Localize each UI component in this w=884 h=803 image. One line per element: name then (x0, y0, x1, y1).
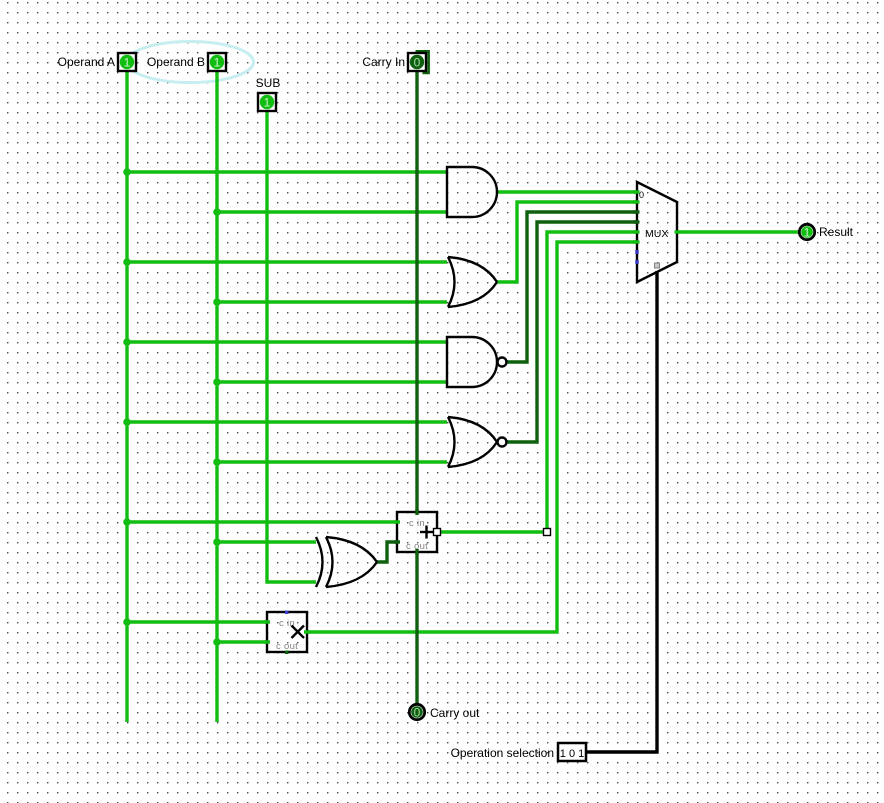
svg-text:Operand A: Operand A (58, 55, 115, 69)
svg-text:c in: c in (279, 618, 295, 629)
svg-text:MUX: MUX (645, 228, 668, 240)
svg-text:1: 1 (124, 56, 131, 70)
svg-text:c in: c in (409, 518, 425, 529)
svg-text:1 0 1: 1 0 1 (560, 748, 584, 760)
svg-text:SUB: SUB (256, 76, 281, 90)
svg-text:Result: Result (819, 225, 854, 239)
svg-text:1: 1 (264, 96, 271, 110)
svg-text:1: 1 (804, 226, 811, 240)
svg-text:c out: c out (276, 641, 298, 652)
svg-text:1: 1 (214, 56, 221, 70)
svg-text:Operand B: Operand B (147, 55, 205, 69)
svg-text:Carry out: Carry out (430, 706, 480, 720)
svg-text:Carry In: Carry In (362, 55, 405, 69)
svg-text:0: 0 (414, 56, 421, 70)
svg-text:0: 0 (414, 706, 421, 720)
svg-text:Operation selection: Operation selection (451, 746, 554, 760)
svg-text:0: 0 (639, 190, 644, 200)
